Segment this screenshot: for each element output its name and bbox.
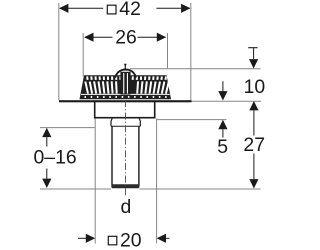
dimension arrow 10 tail tick bbox=[248, 47, 257, 49]
strainer ring separation bbox=[81, 93, 170, 95]
reference line dome top bbox=[130, 68, 261, 70]
dimension arrows 5 bbox=[222, 81, 224, 91]
extension line right of 42 bbox=[190, 3, 192, 100]
svg-text:42: 42 bbox=[119, 0, 141, 20]
extension line right of 26 bbox=[167, 33, 169, 68]
reference line roof level right bbox=[192, 100, 262, 102]
extension line left of 20 bbox=[94, 119, 96, 244]
extension line left of 26 bbox=[82, 33, 84, 77]
reference line flange bottom bbox=[157, 119, 227, 121]
strainer slat gaps bbox=[84, 81, 169, 94]
dimension arrows 20 bbox=[78, 237, 86, 239]
dimension line 26 bbox=[85, 36, 165, 38]
reference line socket step bbox=[40, 127, 95, 129]
svg-text:0–16: 0–16 bbox=[34, 146, 77, 168]
dimension line 42 bbox=[60, 7, 190, 9]
arrow 42 right bbox=[181, 4, 190, 13]
strainer teeth gaps bbox=[86, 76, 167, 80]
arrow 42 left bbox=[59, 4, 68, 13]
flange plate on roof bbox=[59, 100, 192, 102]
reference line pipe end left bbox=[40, 188, 111, 190]
dimension arrow 10 bbox=[253, 48, 255, 59]
centerline bbox=[125, 100, 127, 196]
svg-text:26: 26 bbox=[115, 27, 137, 49]
extension line right of 20 bbox=[156, 119, 158, 244]
cap pin top dot bbox=[124, 64, 126, 65]
square symbol 20 bbox=[108, 236, 117, 245]
svg-text:27: 27 bbox=[243, 134, 265, 156]
svg-text:10: 10 bbox=[244, 76, 266, 98]
cap pin bbox=[124, 64, 126, 70]
pipe end bbox=[111, 184, 139, 188]
strainer centre column bbox=[120, 72, 130, 95]
svg-text:d: d bbox=[121, 196, 132, 218]
square symbol 42 bbox=[107, 5, 116, 14]
dimension arrows 0-16 bbox=[42, 128, 51, 137]
arrow 26 left bbox=[84, 33, 93, 42]
strainer base slots bbox=[85, 96, 167, 98]
gray reference / extension lines bbox=[40, 3, 261, 244]
extension line left of 42 bbox=[58, 3, 60, 100]
strainer body bbox=[80, 75, 172, 99]
arrow 26 right bbox=[157, 33, 166, 42]
flange body bbox=[95, 102, 155, 118]
pipe bbox=[112, 126, 139, 186]
reference line pipe end right bbox=[140, 188, 261, 190]
socket neck bbox=[111, 118, 140, 127]
dome cap bbox=[115, 70, 136, 78]
svg-text:20: 20 bbox=[120, 230, 142, 250]
dimension arrows 27 bbox=[249, 101, 258, 110]
socket step line bbox=[111, 125, 140, 127]
svg-text:5: 5 bbox=[217, 136, 228, 158]
